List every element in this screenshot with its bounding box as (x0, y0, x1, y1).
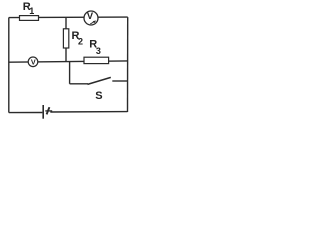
svg-text:3: 3 (96, 46, 101, 56)
wire switch right (112, 80, 128, 82)
wire bottom right (from battery) (50, 111, 127, 113)
wire bottom left (to battery) (9, 112, 43, 114)
resistor R3 (84, 57, 109, 63)
svg-text:S: S (95, 90, 102, 102)
svg-text:V: V (87, 11, 94, 21)
switch S lever (88, 77, 111, 84)
voltmeter U2 (middle) (28, 57, 38, 67)
wire top (9, 16, 128, 19)
battery cell short plate (slanted) (47, 107, 50, 114)
wire R2 branch vertical (65, 18, 67, 62)
wire switch branch vertical (69, 62, 71, 84)
battery cell long plate (42, 105, 44, 119)
resistor R1 (20, 16, 39, 21)
svg-text:1: 1 (29, 6, 34, 16)
svg-text:V: V (31, 58, 36, 67)
wire left border (8, 18, 10, 113)
voltmeter U1 (top) (84, 11, 98, 25)
wire middle row (9, 61, 128, 62)
svg-text:2: 2 (78, 37, 83, 47)
resistor R2 (63, 29, 68, 48)
wire right border (127, 17, 129, 112)
battery plus crossbar (45, 110, 52, 112)
wire switch left (70, 83, 88, 85)
